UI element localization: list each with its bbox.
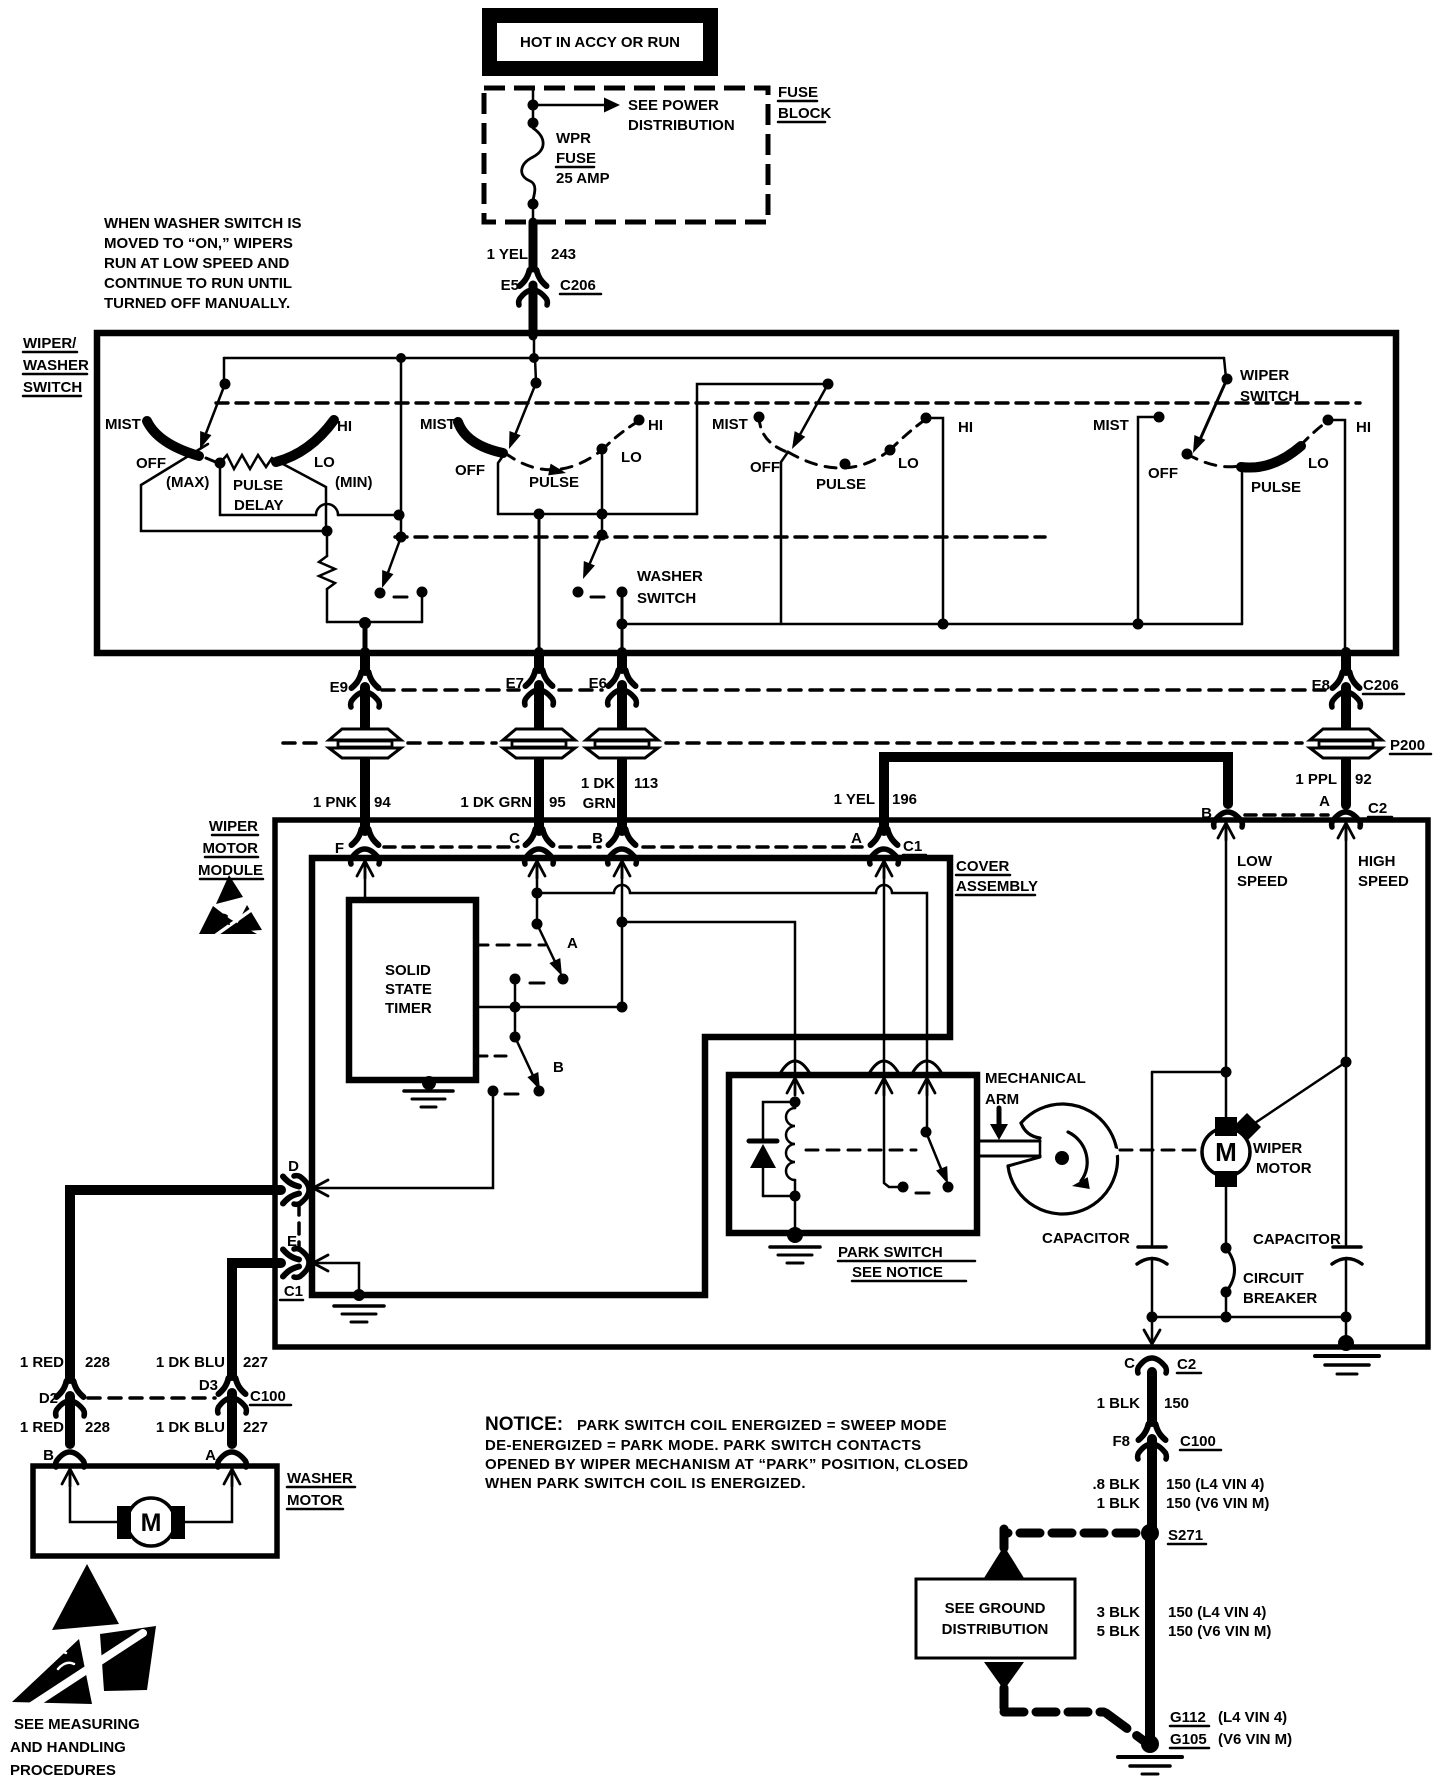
svg-text:SOLID: SOLID	[385, 962, 431, 979]
svg-text:OFF: OFF	[455, 462, 485, 479]
svg-text:C: C	[1124, 1355, 1135, 1372]
svg-text:A: A	[1319, 793, 1330, 810]
svg-text:WASHER: WASHER	[23, 357, 89, 374]
svg-text:E5: E5	[501, 277, 519, 294]
svg-text:A: A	[851, 830, 862, 847]
svg-text:MIST: MIST	[712, 416, 748, 433]
svg-text:PARK SWITCH COIL ENERGIZED = S: PARK SWITCH COIL ENERGIZED = SWEEP MODE	[577, 1417, 947, 1434]
svg-text:PULSE: PULSE	[233, 477, 283, 494]
svg-text:228: 228	[85, 1419, 110, 1436]
svg-text:PULSE: PULSE	[529, 474, 579, 491]
svg-text:LO: LO	[898, 455, 919, 472]
svg-text:DISTRIBUTION: DISTRIBUTION	[942, 1621, 1049, 1638]
svg-text:C206: C206	[560, 277, 596, 294]
svg-text:B: B	[43, 1447, 54, 1464]
svg-text:CAPACITOR: CAPACITOR	[1253, 1231, 1341, 1248]
svg-text:TURNED OFF MANUALLY.: TURNED OFF MANUALLY.	[104, 295, 290, 312]
svg-text:F8: F8	[1112, 1433, 1130, 1450]
svg-text:(MIN): (MIN)	[335, 474, 373, 491]
svg-text:243: 243	[551, 246, 576, 263]
svg-text:1 RED: 1 RED	[20, 1354, 64, 1371]
svg-text:MIST: MIST	[105, 416, 141, 433]
svg-text:SEE GROUND: SEE GROUND	[945, 1600, 1046, 1617]
svg-text:CONTINUE TO RUN UNTIL: CONTINUE TO RUN UNTIL	[104, 275, 292, 292]
svg-text:C206: C206	[1363, 677, 1399, 694]
svg-text:M: M	[141, 1509, 162, 1537]
svg-text:LO: LO	[314, 454, 335, 471]
svg-text:C100: C100	[1180, 1433, 1216, 1450]
svg-text:G112: G112	[1170, 1709, 1206, 1726]
svg-text:1 DK BLU: 1 DK BLU	[156, 1419, 225, 1436]
svg-text:DELAY: DELAY	[234, 497, 283, 514]
svg-text:MOVED TO “ON,” WIPERS: MOVED TO “ON,” WIPERS	[104, 235, 293, 252]
svg-text:BLOCK: BLOCK	[778, 105, 831, 122]
svg-text:SEE POWER: SEE POWER	[628, 97, 719, 114]
svg-text:HIGH: HIGH	[1358, 853, 1396, 870]
svg-text:G105: G105	[1170, 1731, 1207, 1748]
svg-text:WHEN PARK SWITCH COIL IS ENERG: WHEN PARK SWITCH COIL IS ENERGIZED.	[485, 1475, 806, 1492]
svg-text:A: A	[205, 1447, 216, 1464]
svg-text:C1: C1	[284, 1283, 303, 1300]
svg-text:B: B	[553, 1059, 564, 1076]
svg-text:.8 BLK: .8 BLK	[1092, 1476, 1140, 1493]
svg-text:C: C	[509, 830, 520, 847]
svg-text:E8: E8	[1312, 677, 1330, 694]
svg-text:CIRCUIT: CIRCUIT	[1243, 1270, 1304, 1287]
svg-text:1 PPL: 1 PPL	[1295, 771, 1337, 788]
svg-text:1 YEL: 1 YEL	[487, 246, 528, 263]
svg-text:1 DK: 1 DK	[581, 775, 615, 792]
svg-text:1 DK BLU: 1 DK BLU	[156, 1354, 225, 1371]
svg-text:E7: E7	[506, 675, 524, 692]
svg-text:LOW: LOW	[1237, 853, 1273, 870]
svg-text:1 PNK: 1 PNK	[313, 794, 357, 811]
svg-text:MODULE: MODULE	[198, 862, 263, 879]
svg-text:92: 92	[1355, 771, 1372, 788]
svg-text:(MAX): (MAX)	[166, 474, 209, 491]
svg-text:1 RED: 1 RED	[20, 1419, 64, 1436]
svg-text:95: 95	[549, 794, 566, 811]
svg-text:D: D	[288, 1158, 299, 1175]
svg-text:E6: E6	[589, 675, 607, 692]
svg-text:SEE NOTICE: SEE NOTICE	[852, 1264, 943, 1281]
svg-text:1 YEL: 1 YEL	[834, 791, 875, 808]
svg-text:WASHER: WASHER	[637, 568, 703, 585]
svg-text:COVER: COVER	[956, 858, 1010, 875]
svg-text:RUN AT LOW SPEED AND: RUN AT LOW SPEED AND	[104, 255, 289, 272]
svg-text:196: 196	[892, 791, 917, 808]
svg-text:227: 227	[243, 1354, 268, 1371]
svg-text:SPEED: SPEED	[1358, 873, 1409, 890]
svg-text:WIPER/: WIPER/	[23, 335, 77, 352]
svg-text:SWITCH: SWITCH	[637, 590, 696, 607]
svg-text:150 (V6 VIN M): 150 (V6 VIN M)	[1166, 1495, 1269, 1512]
svg-text:NOTICE:: NOTICE:	[485, 1414, 563, 1435]
svg-text:TIMER: TIMER	[385, 1000, 432, 1017]
svg-text:C1: C1	[903, 838, 922, 855]
svg-text:OFF: OFF	[750, 459, 780, 476]
svg-text:OFF: OFF	[136, 455, 166, 472]
svg-text:A: A	[567, 935, 578, 952]
svg-text:1 BLK: 1 BLK	[1097, 1495, 1141, 1512]
svg-text:150: 150	[1164, 1395, 1189, 1412]
svg-text:227: 227	[243, 1419, 268, 1436]
svg-text:1 DK GRN: 1 DK GRN	[460, 794, 532, 811]
svg-text:DE-ENERGIZED = PARK MODE. PAR: DE-ENERGIZED = PARK MODE. PARK SWITCH CO…	[485, 1437, 922, 1454]
svg-text:WPR: WPR	[556, 130, 591, 147]
svg-text:F: F	[335, 840, 344, 857]
svg-text:C2: C2	[1368, 800, 1387, 817]
svg-text:CAPACITOR: CAPACITOR	[1042, 1230, 1130, 1247]
svg-text:STATE: STATE	[385, 981, 432, 998]
svg-text:AND HANDLING: AND HANDLING	[10, 1739, 126, 1756]
svg-text:OPENED BY WIPER MECHANISM AT “: OPENED BY WIPER MECHANISM AT “PARK” POSI…	[485, 1456, 968, 1473]
svg-text:MECHANICAL: MECHANICAL	[985, 1070, 1086, 1087]
svg-text:(V6 VIN M): (V6 VIN M)	[1218, 1731, 1292, 1748]
svg-text:3 BLK: 3 BLK	[1097, 1604, 1141, 1621]
svg-text:WIPER: WIPER	[1240, 367, 1289, 384]
svg-text:HOT IN ACCY OR RUN: HOT IN ACCY OR RUN	[520, 34, 680, 51]
svg-text:MOTOR: MOTOR	[202, 840, 258, 857]
svg-text:SWITCH: SWITCH	[23, 379, 82, 396]
svg-text:HI: HI	[1356, 419, 1371, 436]
svg-text:HI: HI	[958, 419, 973, 436]
svg-text:1 BLK: 1 BLK	[1097, 1395, 1141, 1412]
svg-text:B: B	[592, 830, 603, 847]
svg-text:D3: D3	[199, 1377, 218, 1394]
svg-text:BREAKER: BREAKER	[1243, 1290, 1317, 1307]
svg-text:MIST: MIST	[1093, 417, 1129, 434]
svg-text:OFF: OFF	[1148, 465, 1178, 482]
svg-text:D2: D2	[39, 1390, 58, 1407]
svg-text:PULSE: PULSE	[816, 476, 866, 493]
svg-text:94: 94	[374, 794, 391, 811]
svg-text:MOTOR: MOTOR	[1256, 1160, 1312, 1177]
svg-text:150 (L4 VIN 4): 150 (L4 VIN 4)	[1166, 1476, 1264, 1493]
svg-text:SWITCH: SWITCH	[1240, 388, 1299, 405]
svg-text:C100: C100	[250, 1388, 286, 1405]
svg-text:WHEN WASHER SWITCH IS: WHEN WASHER SWITCH IS	[104, 215, 302, 232]
svg-text:ARM: ARM	[985, 1091, 1019, 1108]
svg-text:HI: HI	[648, 417, 663, 434]
svg-text:25 AMP: 25 AMP	[556, 170, 610, 187]
svg-text:C2: C2	[1177, 1356, 1196, 1373]
svg-text:(L4 VIN 4): (L4 VIN 4)	[1218, 1709, 1287, 1726]
svg-text:PARK SWITCH: PARK SWITCH	[838, 1244, 943, 1261]
svg-text:GRN: GRN	[583, 795, 616, 812]
svg-text:WASHER: WASHER	[287, 1470, 353, 1487]
svg-text:SPEED: SPEED	[1237, 873, 1288, 890]
svg-text:MOTOR: MOTOR	[287, 1492, 343, 1509]
svg-text:PULSE: PULSE	[1251, 479, 1301, 496]
svg-text:HI: HI	[337, 418, 352, 435]
svg-text:WIPER: WIPER	[1253, 1140, 1302, 1157]
svg-text:PROCEDURES: PROCEDURES	[10, 1762, 116, 1776]
svg-text:LO: LO	[1308, 455, 1329, 472]
svg-text:228: 228	[85, 1354, 110, 1371]
svg-text:FUSE: FUSE	[778, 84, 818, 101]
svg-text:ASSEMBLY: ASSEMBLY	[956, 878, 1038, 895]
svg-text:DISTRIBUTION: DISTRIBUTION	[628, 117, 735, 134]
svg-text:5 BLK: 5 BLK	[1097, 1623, 1141, 1640]
svg-text:113: 113	[634, 775, 658, 792]
svg-text:WIPER: WIPER	[209, 818, 258, 835]
svg-text:FUSE: FUSE	[556, 150, 596, 167]
svg-text:S271: S271	[1168, 1527, 1203, 1544]
svg-text:150 (L4 VIN 4): 150 (L4 VIN 4)	[1168, 1604, 1266, 1621]
svg-text:P200: P200	[1390, 737, 1425, 754]
svg-text:MIST: MIST	[420, 416, 456, 433]
svg-text:E9: E9	[330, 679, 348, 696]
svg-text:LO: LO	[621, 449, 642, 466]
svg-text:SEE MEASURING: SEE MEASURING	[14, 1716, 140, 1733]
svg-text:M: M	[1215, 1137, 1237, 1167]
svg-text:150 (V6 VIN M): 150 (V6 VIN M)	[1168, 1623, 1271, 1640]
